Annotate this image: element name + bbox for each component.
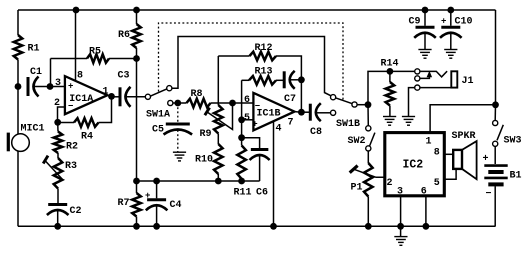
node mid rail R7 junction xyxy=(133,178,140,185)
node C1 left junction xyxy=(15,83,22,90)
svg-text:C9: C9 xyxy=(409,17,421,28)
wire R13 left drop xyxy=(241,80,243,120)
svg-text:R9: R9 xyxy=(200,129,212,140)
ground R14 xyxy=(383,117,396,126)
switch SW1A throw up xyxy=(167,86,172,91)
resistor R1 xyxy=(14,35,40,60)
wire C8 to SW1B xyxy=(316,112,331,114)
label SW1B xyxy=(336,119,360,130)
svg-text:R14: R14 xyxy=(381,59,399,70)
switch SW1A throw down xyxy=(168,100,173,105)
node IC1B output junction xyxy=(298,109,305,116)
node R5 R6 R7 junction xyxy=(133,55,140,62)
svg-text:8: 8 xyxy=(77,71,83,82)
node C2 ground junction xyxy=(54,223,61,230)
node pin1 SW3 junction xyxy=(492,101,499,108)
wire R6 node to mid rail xyxy=(136,59,138,182)
resistor R13 xyxy=(242,67,285,85)
svg-text:MIC1: MIC1 xyxy=(21,124,45,135)
wire IC2 pin 3 xyxy=(400,196,402,227)
svg-text:R2: R2 xyxy=(66,142,78,153)
svg-text:7: 7 xyxy=(288,118,294,129)
node C6 tee junction xyxy=(238,134,245,141)
svg-text:R10: R10 xyxy=(195,155,213,166)
capacitor C1 xyxy=(28,67,42,97)
svg-text:+: + xyxy=(441,17,446,27)
op-amp IC1A xyxy=(54,71,109,115)
node pin2 feedback junction xyxy=(54,119,61,126)
svg-text:P1: P1 xyxy=(351,183,363,194)
svg-text:SW2: SW2 xyxy=(348,136,366,147)
switch SW1B lever xyxy=(336,98,352,104)
node R14 top junction xyxy=(387,68,394,75)
jack J1 switch contact xyxy=(415,76,420,81)
jack J1 sleeve wire xyxy=(420,87,451,89)
svg-text:R11: R11 xyxy=(234,188,252,199)
node pin4 ground junction xyxy=(270,223,277,230)
wire R8 to pin6 xyxy=(211,102,254,104)
capacitor C5 dashed leads xyxy=(177,103,179,152)
node SW1A R8 junction xyxy=(174,100,181,107)
label SW3 xyxy=(504,136,522,147)
wire P1 wiper to pin2 xyxy=(350,166,385,178)
resistor R6 xyxy=(118,10,141,59)
trimmer R3 xyxy=(43,153,77,189)
capacitor C8 xyxy=(301,103,322,138)
node C4 mid rail junction xyxy=(153,178,160,185)
battery B1 xyxy=(483,154,522,200)
switch SW3 lever xyxy=(497,125,503,141)
jack J1 body xyxy=(451,71,473,87)
jack J1 spring xyxy=(420,71,447,77)
wire R9 wiper xyxy=(205,103,233,130)
svg-text:R8: R8 xyxy=(191,89,203,100)
jack J1 tip contact xyxy=(415,69,420,74)
svg-text:C5: C5 xyxy=(152,125,164,136)
svg-text:C1: C1 xyxy=(30,67,42,78)
svg-text:−: − xyxy=(255,101,260,111)
node C4 ground junction xyxy=(153,223,160,230)
wire SW1A bypass loop xyxy=(172,37,331,96)
svg-text:C4: C4 xyxy=(170,200,182,211)
svg-text:J1: J1 xyxy=(462,76,474,87)
wire C3 to SW1A xyxy=(125,96,146,98)
switch SW1B throw up xyxy=(331,95,336,100)
capacitor C2 xyxy=(47,189,82,227)
svg-text:+: + xyxy=(483,154,489,165)
ground C9 xyxy=(418,50,431,59)
resistor R4 xyxy=(58,97,112,143)
speaker SPKR xyxy=(452,131,477,179)
svg-text:C8: C8 xyxy=(310,127,322,138)
capacitor C10 xyxy=(440,10,473,50)
svg-text:R12: R12 xyxy=(255,43,273,54)
ground J1 xyxy=(402,117,415,126)
node pin8 top rail junction xyxy=(73,7,80,14)
capacitor C3 xyxy=(112,71,131,107)
capacitor C5 xyxy=(152,124,192,136)
wire SW1B pole to node xyxy=(357,104,368,106)
capacitor C6 xyxy=(242,138,270,199)
svg-text:C7: C7 xyxy=(284,94,296,105)
resistor R12 xyxy=(218,43,301,80)
wire IC2 pin 8 xyxy=(444,153,453,155)
svg-text:R13: R13 xyxy=(255,67,273,78)
ground C10 xyxy=(444,50,457,59)
svg-text:+: + xyxy=(145,191,150,201)
wire IC1A pin 2 xyxy=(58,107,65,122)
svg-text:5: 5 xyxy=(434,178,440,189)
trimmer R9 xyxy=(200,105,223,140)
node C9 rail junction xyxy=(422,7,429,14)
resistor R7 xyxy=(118,181,141,226)
svg-text:R6: R6 xyxy=(118,30,130,41)
switch SW1B throw down xyxy=(331,110,336,115)
ground C5 xyxy=(173,152,186,161)
wire R1 to C1 node xyxy=(17,60,19,87)
microphone MIC1 xyxy=(8,124,44,152)
label SW1A xyxy=(146,110,170,121)
svg-text:R4: R4 xyxy=(81,132,93,143)
wire battery to ground rail xyxy=(494,186,496,226)
jack J1 sleeve contact xyxy=(415,85,420,90)
wire feedback drop xyxy=(300,80,302,112)
svg-text:B1: B1 xyxy=(510,171,522,182)
node C10 rail junction xyxy=(447,7,454,14)
svg-text:SW1B: SW1B xyxy=(336,119,360,130)
jack J1 arrow xyxy=(420,71,432,79)
resistor R14 xyxy=(381,59,399,117)
svg-text:SW1A: SW1A xyxy=(146,110,170,121)
switch SW1A lever xyxy=(151,89,167,96)
node R9 wiper junction xyxy=(229,100,236,107)
potentiometer P1 xyxy=(351,151,373,226)
switch SW1B pole xyxy=(352,102,357,107)
svg-text:4: 4 xyxy=(276,124,282,135)
wire MIC1 to ground rail xyxy=(17,151,19,227)
node pin5 junction xyxy=(238,116,245,123)
wire C1 node to MIC1 xyxy=(17,87,19,136)
wire IC1B output xyxy=(295,111,302,114)
capacitor C9 xyxy=(409,10,436,50)
wire mid bias rail xyxy=(137,180,260,182)
switch SW2 lever xyxy=(370,133,375,146)
wire IC1B pin 4 xyxy=(273,121,275,226)
node R12 C7 junction xyxy=(298,76,305,83)
switch SW2 top xyxy=(366,105,371,131)
svg-text:5: 5 xyxy=(244,113,250,124)
wire SW3 to battery xyxy=(494,147,496,165)
svg-text:3: 3 xyxy=(55,78,61,89)
resistor R10 xyxy=(195,134,223,182)
wire C1 to pin3 xyxy=(33,86,65,88)
wire right supply drop xyxy=(495,10,497,105)
wire IC1B pin 5 xyxy=(242,119,254,121)
wire node to R14 J1 xyxy=(368,71,415,104)
wire IC2 pin 5 xyxy=(444,169,456,179)
wire bottom ground rail xyxy=(18,225,496,227)
resistor R2 xyxy=(54,122,78,153)
wire J1 to ground xyxy=(409,88,415,117)
node pin3 junction xyxy=(47,83,54,90)
svg-text:−: − xyxy=(68,102,73,112)
svg-text:R7: R7 xyxy=(118,198,130,209)
svg-text:+: + xyxy=(252,119,257,129)
svg-text:6: 6 xyxy=(244,95,250,106)
svg-text:R1: R1 xyxy=(28,44,40,55)
svg-text:C10: C10 xyxy=(455,17,473,28)
ground supply rail xyxy=(394,226,407,245)
svg-text:IC2: IC2 xyxy=(403,159,424,172)
resistor R8 xyxy=(187,89,211,107)
wire R5 tap to pin3 node xyxy=(50,59,52,87)
wire gang linkage dashed xyxy=(159,23,344,100)
node IC1A output junction xyxy=(108,93,115,100)
svg-text:8: 8 xyxy=(434,148,440,159)
svg-text:2: 2 xyxy=(387,178,393,189)
resistor R11 xyxy=(234,138,252,199)
wire IC1A output xyxy=(107,95,111,96)
capacitor C7 xyxy=(284,71,296,105)
label SW2 xyxy=(348,136,366,147)
switch SW3 bottom xyxy=(493,141,498,146)
node R7 ground junction xyxy=(133,223,140,230)
node R6 top rail junction xyxy=(133,7,140,14)
wire top supply rail xyxy=(18,9,496,11)
wire SW1A throw to R8 xyxy=(173,102,187,104)
switch SW2 bottom xyxy=(366,146,371,151)
node R10 mid rail junction xyxy=(215,178,222,185)
svg-text:SPKR: SPKR xyxy=(452,131,476,142)
wire C7 to output node xyxy=(289,79,301,81)
svg-text:SW3: SW3 xyxy=(504,136,522,147)
switch SW1A pole xyxy=(145,94,150,99)
svg-text:C2: C2 xyxy=(70,206,82,217)
svg-text:1: 1 xyxy=(426,137,432,148)
node pin3 ground junction xyxy=(397,223,404,230)
wire IC1A pin 8 xyxy=(75,10,77,82)
wire R12 left drop xyxy=(217,56,219,105)
wire pin5 to C6 tee xyxy=(241,120,243,138)
svg-text:R3: R3 xyxy=(65,161,77,172)
node P1 ground junction xyxy=(365,223,372,230)
svg-text:C6: C6 xyxy=(256,188,268,199)
svg-text:+: + xyxy=(68,81,73,91)
node R11 mid rail junction xyxy=(238,178,245,185)
capacitor C4 xyxy=(145,181,182,226)
switch SW3 top xyxy=(493,105,498,126)
svg-text:R5: R5 xyxy=(89,47,101,58)
svg-text:C3: C3 xyxy=(118,71,130,82)
svg-text:−: − xyxy=(486,189,492,200)
node SW1B SW2 junction xyxy=(365,101,372,108)
wire left column top xyxy=(17,10,19,35)
op-amp IC1B xyxy=(244,93,295,135)
resistor R5 xyxy=(51,47,137,63)
amplifier IC2 xyxy=(385,133,445,198)
wire IC2 pin 1 xyxy=(430,105,495,133)
node pin6 ground junction xyxy=(423,223,430,230)
wire IC2 pin 6 xyxy=(425,196,427,227)
